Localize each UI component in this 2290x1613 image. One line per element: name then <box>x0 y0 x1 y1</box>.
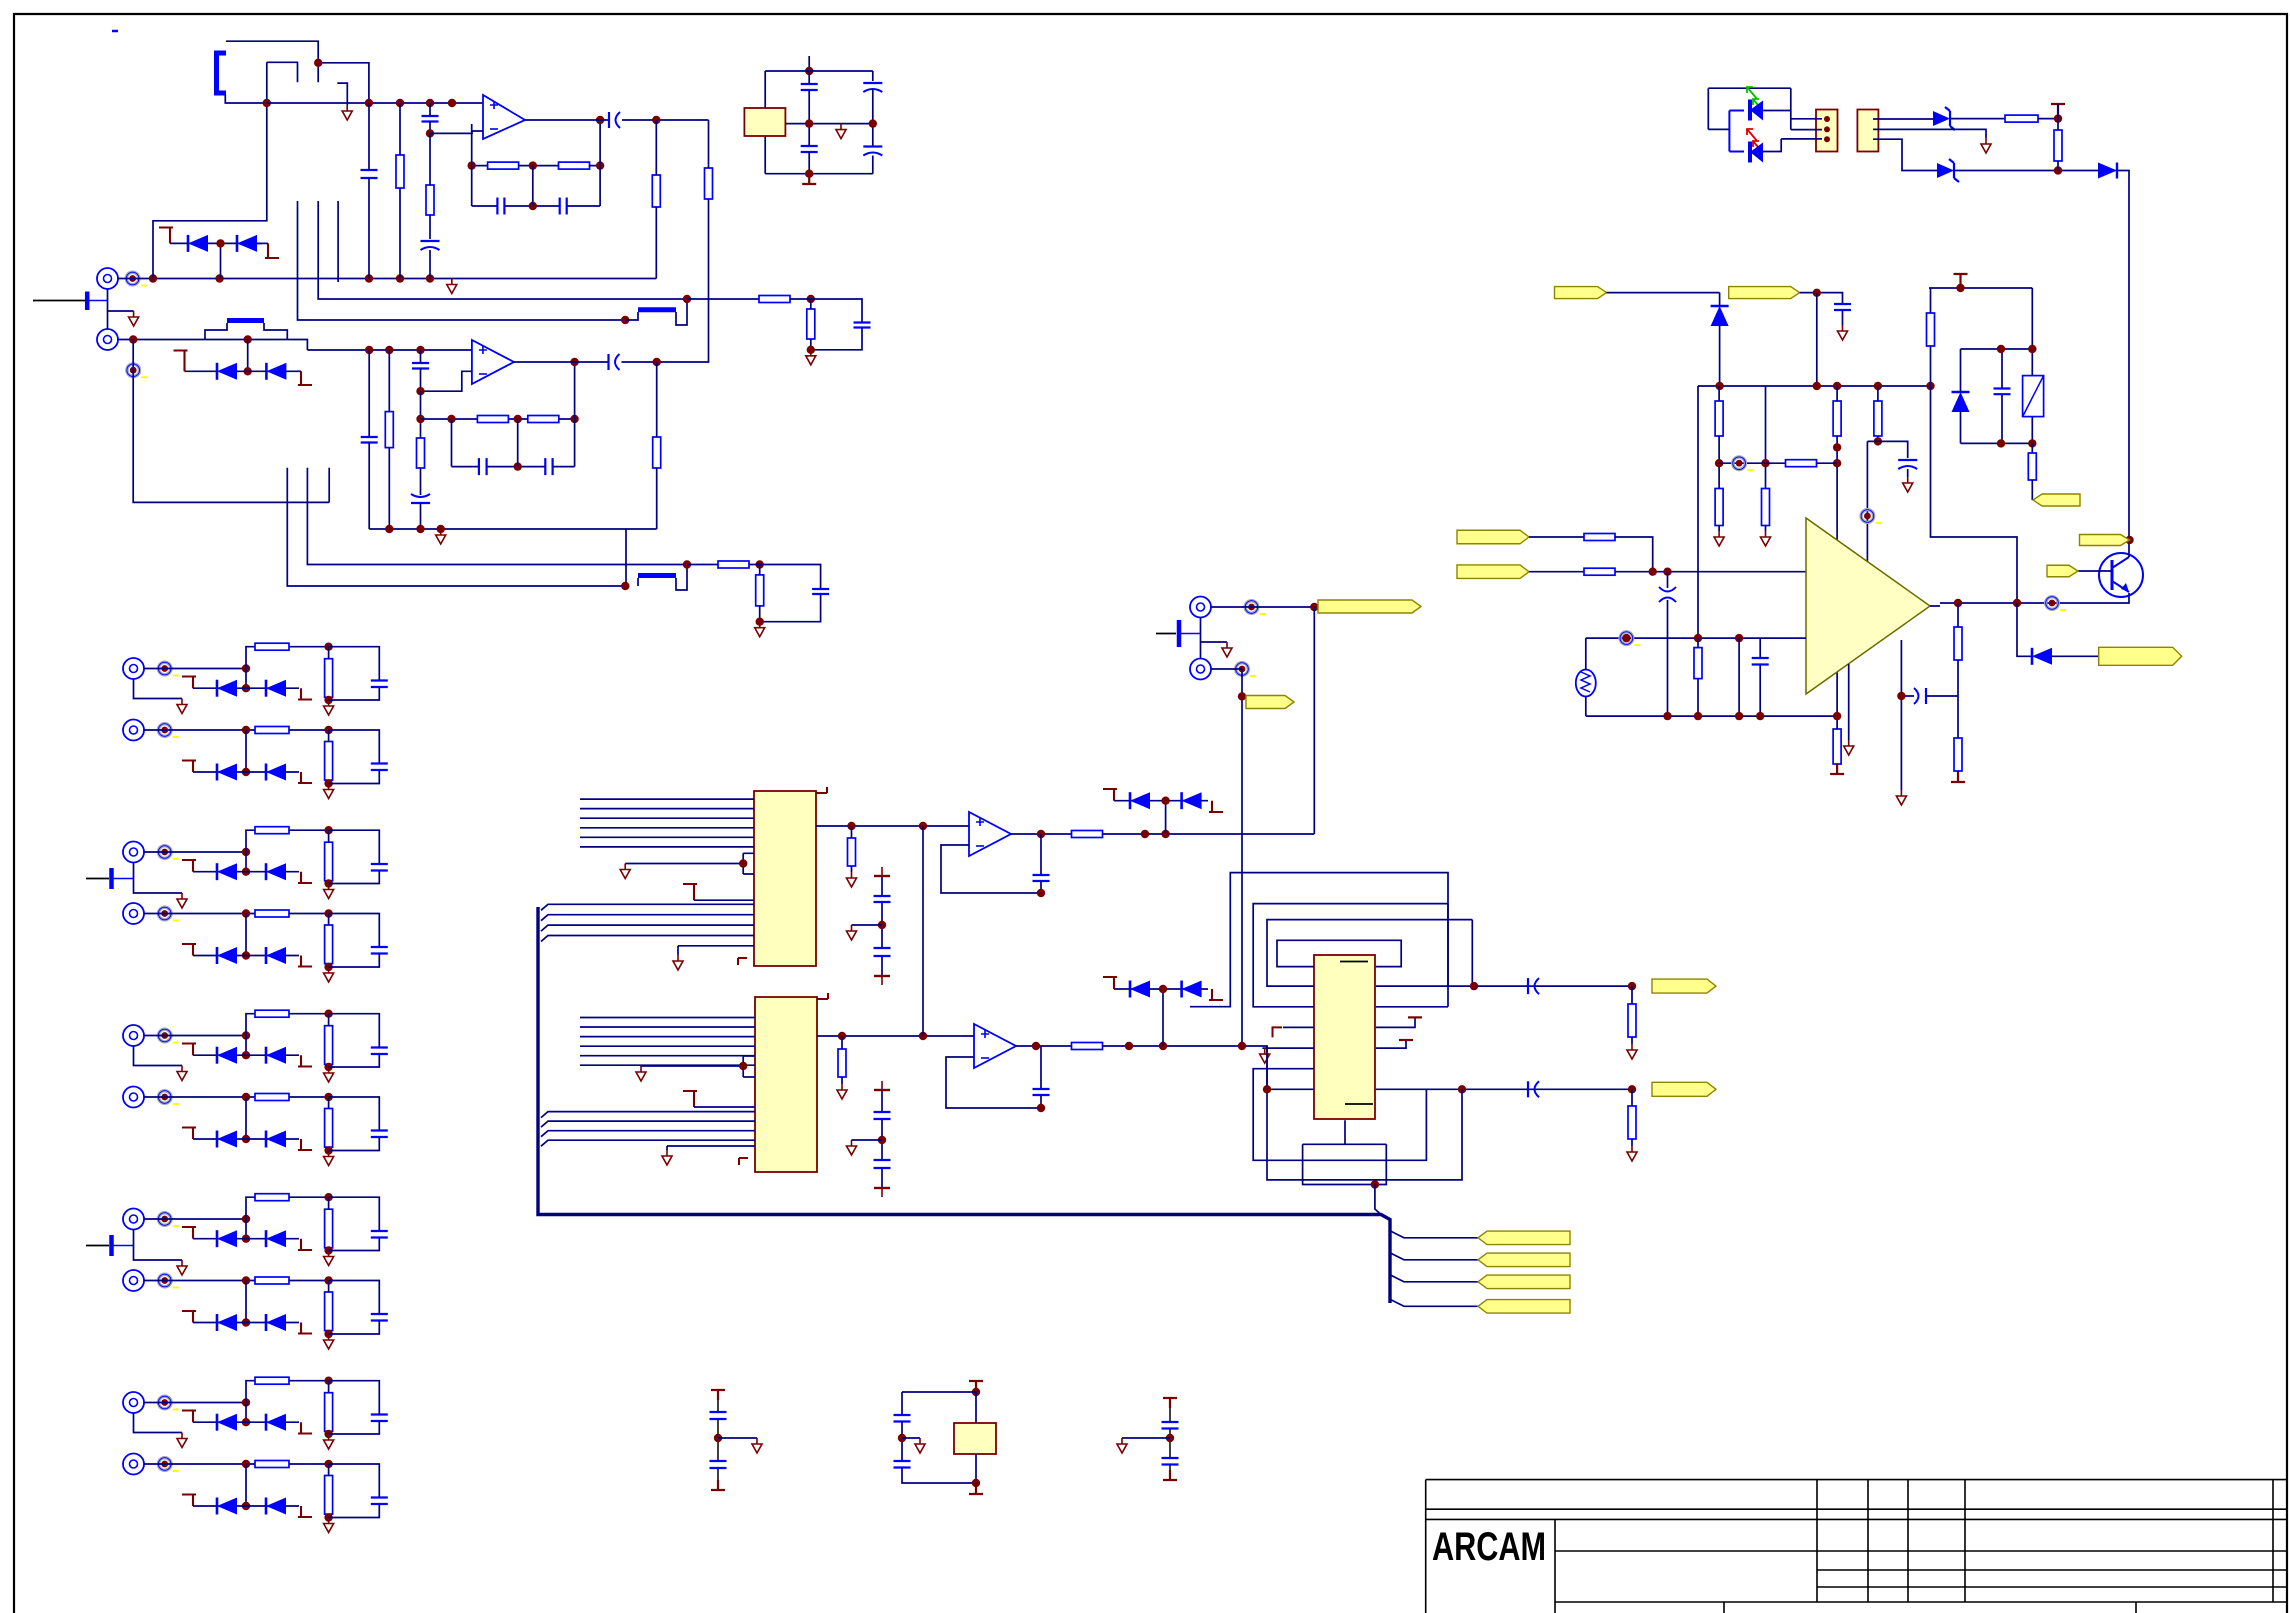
node <box>621 316 629 324</box>
IC U7 <box>954 1423 996 1454</box>
power marker <box>298 688 312 699</box>
wire gnd stub <box>134 1413 183 1433</box>
node <box>1628 1085 1636 1093</box>
jumper W4 <box>638 573 676 578</box>
wire gnd stub <box>134 1230 183 1261</box>
node <box>570 358 578 366</box>
power marker <box>874 1089 890 1091</box>
wire <box>328 1097 330 1151</box>
power marker <box>182 677 196 689</box>
capacitor C30 <box>1834 304 1851 310</box>
wire <box>759 565 761 622</box>
node <box>324 1460 332 1468</box>
IC U5 pin1 mark <box>1340 961 1368 963</box>
node <box>1833 459 1841 467</box>
ground <box>324 1518 334 1533</box>
wire gnd stub <box>134 679 183 699</box>
node <box>529 202 537 210</box>
power marker <box>874 975 890 977</box>
node <box>1813 289 1821 297</box>
wire fan1 <box>1390 1231 1478 1238</box>
wire bus tap <box>541 1121 755 1127</box>
node <box>468 161 476 169</box>
op-amp U1B <box>472 340 514 384</box>
wire cap loop <box>329 647 380 700</box>
node <box>514 462 522 470</box>
power marker <box>1103 977 1117 989</box>
wire <box>1529 536 1584 538</box>
node <box>242 1093 250 1101</box>
ground <box>177 1433 187 1448</box>
capacitor C14 <box>479 458 487 475</box>
wire clamp row <box>193 1421 299 1423</box>
node <box>805 170 813 178</box>
wire rail bottom <box>1586 715 1837 717</box>
wire bus in <box>580 1064 755 1066</box>
ground <box>1838 325 1848 340</box>
resistor R <box>255 1461 289 1468</box>
node <box>365 99 373 107</box>
wire LED loop outer <box>1708 88 1791 129</box>
chassis ground symbol <box>1156 633 1176 635</box>
resistor R14 <box>718 561 749 568</box>
wire clamp drop <box>245 1281 247 1323</box>
pad <box>158 1274 171 1287</box>
wire cap loop <box>329 914 380 968</box>
node <box>242 1215 250 1223</box>
wire clamp row <box>193 1505 299 1507</box>
wire clamp drop <box>245 730 247 772</box>
wire bus in <box>580 836 754 838</box>
capacitor C18 <box>812 589 829 594</box>
node <box>324 779 332 787</box>
capacitor C <box>371 1314 388 1321</box>
ground <box>324 1251 334 1266</box>
resistor R39 <box>1584 568 1615 575</box>
jumper W1 <box>217 53 227 93</box>
power marker <box>298 1422 312 1433</box>
connector J RCA TAPE L <box>123 1209 144 1230</box>
jumper W2 <box>227 318 264 323</box>
power marker <box>683 1091 697 1107</box>
wire <box>808 124 810 174</box>
wire out row <box>1940 593 2129 603</box>
node <box>1813 382 1821 390</box>
wire gnd link <box>108 310 134 312</box>
node <box>807 295 815 303</box>
wire fb1 verts <box>472 120 600 206</box>
wire U5 pin gnd <box>1262 1047 1314 1049</box>
wire clamp drop <box>245 1036 247 1056</box>
node <box>215 274 223 282</box>
wire in row <box>144 913 329 915</box>
wire bus tap <box>541 1112 755 1118</box>
wire <box>851 826 853 872</box>
wire bus in <box>580 1036 755 1038</box>
flag BUS4 <box>1478 1300 1570 1314</box>
wire clamp drop <box>245 1464 247 1506</box>
node <box>416 415 424 423</box>
wire <box>328 1197 330 1250</box>
node <box>847 822 855 830</box>
node <box>805 67 813 75</box>
IC U5 mark2 <box>1345 1103 1373 1105</box>
wire clamp row <box>193 687 299 689</box>
node <box>324 826 332 834</box>
capacitor C44 <box>1162 1422 1179 1429</box>
resistor R11 <box>653 437 661 468</box>
wire fb1 top <box>472 165 600 167</box>
node <box>1874 382 1882 390</box>
resistor R <box>255 827 289 834</box>
wire gnd elbow <box>337 83 347 105</box>
wire loop L0 <box>1190 873 1448 1007</box>
node <box>1761 459 1769 467</box>
wire <box>1957 696 1959 738</box>
power marker <box>1273 1027 1283 1037</box>
wire out1b <box>622 119 709 121</box>
node <box>1997 345 2005 353</box>
wire rec L <box>1211 606 1314 608</box>
wire bus stub A1 <box>298 201 626 320</box>
diode D <box>216 1047 219 1064</box>
flag REC-L <box>1318 600 1421 613</box>
wire -in2 <box>421 371 472 391</box>
wire cap loop <box>329 1197 380 1250</box>
pad <box>158 1213 171 1226</box>
diode D <box>265 1498 268 1515</box>
wire in row <box>144 1402 246 1404</box>
resistor R <box>255 1277 289 1284</box>
resistor R43 <box>2028 453 2036 480</box>
resistor R37 <box>1762 489 1770 526</box>
wire <box>1867 441 1878 568</box>
node <box>242 684 250 692</box>
wire loop b1 <box>1253 1069 1426 1161</box>
power marker <box>298 1139 312 1150</box>
resistor R shunt <box>325 925 333 964</box>
wire U5 pin4L <box>1283 1026 1314 1028</box>
power marker <box>1163 1470 1177 1480</box>
node <box>1310 603 1318 611</box>
resistor R shunt <box>325 1476 333 1515</box>
wire RCA2 row <box>119 340 308 351</box>
wire pin gnd <box>678 946 754 955</box>
resistor R5 <box>652 175 660 207</box>
wire bus in <box>580 808 754 810</box>
ground <box>324 1067 334 1082</box>
wire U3 fb <box>941 834 1041 893</box>
connector CN2 <box>1857 110 1878 152</box>
capacitor C13 <box>411 502 430 504</box>
pad P21 <box>1861 510 1874 523</box>
diode D32 <box>2031 648 2034 665</box>
wire <box>1529 571 1584 573</box>
capacitor C10 <box>863 145 882 147</box>
wire U5 rpinT2 <box>1376 1040 1406 1048</box>
node <box>426 99 434 107</box>
node <box>324 1430 332 1438</box>
power marker <box>298 1055 312 1066</box>
wire <box>2031 443 2033 453</box>
ground <box>847 872 857 887</box>
resistor R3 <box>488 162 519 169</box>
power marker <box>182 1411 196 1423</box>
diode D30 <box>2098 163 2117 179</box>
wire up to R <box>246 647 329 669</box>
flag REC-R <box>1246 696 1294 709</box>
wire <box>656 362 658 529</box>
pad <box>158 1396 171 1409</box>
op-amp U4 <box>974 1024 1016 1068</box>
capacitor C7 <box>801 84 818 90</box>
wire <box>2052 655 2099 657</box>
node <box>2028 345 2036 353</box>
wire cn2 out2 <box>1879 129 1987 138</box>
ground <box>324 884 334 899</box>
node <box>426 129 434 137</box>
resistor R23 <box>1072 1043 1103 1050</box>
wire <box>1718 526 1720 532</box>
resistor R4 <box>559 162 590 169</box>
connector J RCA TUNER R <box>123 903 144 924</box>
node <box>242 1418 250 1426</box>
diode D <box>216 863 219 880</box>
wire opamp2 +in <box>307 349 472 351</box>
capacitor C34 <box>1752 658 1769 665</box>
diode D <box>265 947 268 964</box>
wire <box>296 370 301 372</box>
wire bus stub B3 <box>328 468 330 503</box>
wire fan4 <box>1390 1299 1478 1306</box>
wire in row <box>144 851 246 853</box>
ground <box>1117 1438 1127 1453</box>
pad P2 <box>127 364 140 377</box>
wire <box>708 120 710 168</box>
wire fb2 verts <box>452 362 575 467</box>
wire <box>841 1036 843 1084</box>
node <box>324 1276 332 1284</box>
resistor R21 <box>1072 831 1103 838</box>
ground <box>324 1434 334 1449</box>
wire relay top <box>1961 348 2033 350</box>
node <box>1874 437 1882 445</box>
diode D <box>216 680 219 697</box>
wire clamp row <box>193 771 299 773</box>
capacitor C <box>371 1048 388 1055</box>
node <box>242 1235 250 1243</box>
wire <box>2057 104 2059 119</box>
wire gnd pin <box>1848 664 1850 740</box>
resistor R38 <box>1584 534 1615 541</box>
diode D23 <box>1180 981 1183 998</box>
node <box>324 1010 332 1018</box>
wire <box>1697 386 1699 638</box>
node <box>596 161 604 169</box>
node <box>1897 692 1905 700</box>
resistor R42 <box>1954 627 1962 660</box>
node <box>1161 797 1169 805</box>
node <box>1470 982 1478 990</box>
wire midcap2 <box>881 1090 883 1188</box>
wire U4 out <box>1016 1046 1314 1089</box>
node <box>878 921 886 929</box>
wire <box>1954 170 2098 172</box>
wire up to R <box>246 1381 329 1403</box>
wire <box>655 120 657 279</box>
capacitor C <box>371 947 388 954</box>
connector J12 RCA rec R <box>1190 659 1211 680</box>
diode D4 <box>265 363 268 380</box>
capacitor C11 <box>361 437 378 443</box>
wire <box>429 250 431 279</box>
LED red arrows <box>1747 129 1763 153</box>
wire gnd link <box>1201 641 1228 643</box>
capacitor C6 <box>608 112 610 128</box>
pad <box>158 724 171 737</box>
wire bus tap <box>541 904 754 910</box>
node <box>1735 712 1743 720</box>
wire bus tap <box>541 936 754 942</box>
photoresistor LDR1 <box>1576 670 1596 697</box>
wire rec R drop <box>1241 669 1243 1046</box>
wire clamp row <box>193 1322 299 1324</box>
node <box>216 239 224 247</box>
node <box>149 274 157 282</box>
ground <box>324 700 334 715</box>
wire <box>975 1391 977 1483</box>
wire loop L1 <box>1253 904 1448 1007</box>
node <box>1037 830 1045 838</box>
pad P22 <box>1620 632 1633 645</box>
wire out1 <box>525 119 608 121</box>
ground <box>1714 531 1724 546</box>
node <box>324 1146 332 1154</box>
wire top loop <box>1929 288 2032 349</box>
flag OUT-R <box>1652 1082 1716 1096</box>
capacitor C20 <box>1033 875 1050 881</box>
resistor R33 <box>1715 401 1723 436</box>
wire <box>388 350 390 529</box>
capacitor C9 <box>801 146 818 152</box>
wire U5 rpinT1 <box>1376 1017 1415 1027</box>
wire bus stub B2 <box>307 468 687 565</box>
wire jumper4 legs <box>638 565 687 591</box>
wire <box>717 1400 719 1480</box>
node <box>416 387 424 395</box>
wire bus stub A3 <box>337 201 339 282</box>
flag VLINE <box>2080 535 2130 546</box>
wire cap loop <box>329 1381 380 1434</box>
resistor R12 <box>759 296 790 303</box>
ground <box>1981 138 1991 153</box>
node <box>683 560 691 568</box>
resistor R24 <box>1628 1004 1636 1037</box>
node <box>242 1276 250 1284</box>
wire fb link <box>1738 638 1740 716</box>
relay RL1 <box>2023 376 2044 417</box>
resistor R44 <box>1954 738 1962 771</box>
node <box>1622 634 1630 642</box>
wire U4 +in <box>817 1035 974 1037</box>
wire <box>328 830 330 883</box>
node <box>324 879 332 887</box>
node <box>324 909 332 917</box>
wire <box>1765 386 1767 489</box>
node <box>1663 712 1671 720</box>
ground <box>1896 790 1906 805</box>
capacitor C16 <box>607 354 609 370</box>
wire bus in <box>580 817 754 819</box>
node <box>242 664 250 672</box>
flag RLY <box>2033 494 2080 506</box>
connector CN1 <box>1816 110 1838 152</box>
wire clamp drop <box>245 914 247 956</box>
wire bus in <box>580 1055 755 1057</box>
wire long drop <box>2117 171 2129 541</box>
node <box>739 859 747 867</box>
wire <box>810 299 812 350</box>
node <box>242 1135 250 1143</box>
wire <box>1169 1408 1171 1478</box>
wire <box>328 1014 330 1067</box>
wire <box>328 1281 330 1335</box>
node <box>972 1388 980 1396</box>
wire clamp4 <box>1114 989 1208 1046</box>
wire mute link <box>922 826 924 1036</box>
power marker <box>1209 801 1223 812</box>
resistor R <box>255 643 289 650</box>
node <box>396 99 404 107</box>
op-amp U3 <box>969 812 1011 856</box>
wire clamp row <box>193 1054 299 1056</box>
resistor R41 <box>1833 729 1841 764</box>
resistor R40 <box>1694 648 1702 679</box>
wire <box>328 730 330 784</box>
wire shaft <box>1200 618 1202 659</box>
wire pin jumper <box>625 853 754 874</box>
node <box>1161 830 1169 838</box>
node <box>324 1377 332 1385</box>
wire <box>420 503 422 529</box>
node <box>683 295 691 303</box>
wire fb R <box>1697 638 1699 648</box>
wire in row <box>144 668 246 670</box>
wire LED loop inner <box>1729 111 1744 152</box>
node <box>242 1398 250 1406</box>
node <box>1756 712 1764 720</box>
wire bus in <box>580 1026 755 1028</box>
diode D <box>265 1047 268 1064</box>
wire <box>808 71 810 124</box>
node <box>242 1318 250 1326</box>
node <box>242 951 250 959</box>
power marker <box>298 371 312 385</box>
svg-text:ARCAM: ARCAM <box>1432 1525 1546 1569</box>
wire cap loop <box>329 1097 380 1151</box>
wire rc2b <box>749 565 821 622</box>
wire bus in <box>580 1045 755 1047</box>
resistor R20 <box>848 838 856 866</box>
power marker <box>298 1239 312 1250</box>
node <box>529 161 537 169</box>
wire <box>625 529 627 586</box>
wire pin gnd <box>667 1146 755 1150</box>
wire <box>718 1437 757 1439</box>
capacitor C24 <box>874 1112 891 1119</box>
connector J RCA CD R <box>123 720 144 741</box>
wire <box>1697 679 1699 717</box>
